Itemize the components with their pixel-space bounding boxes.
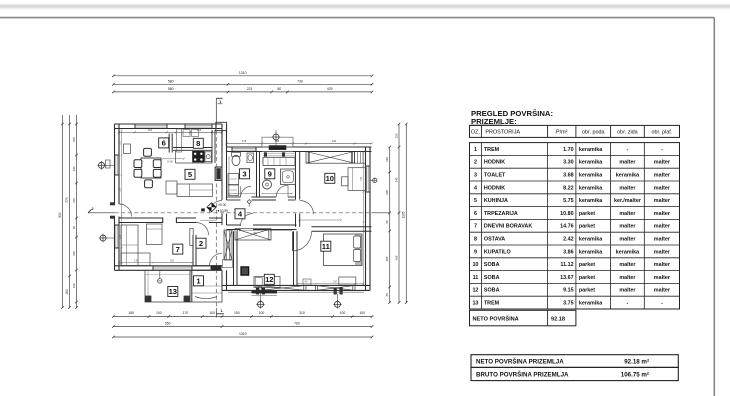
svg-text:9.15: 9.15 <box>563 288 574 294</box>
svg-text:8.22: 8.22 <box>563 185 574 191</box>
svg-text:-: - <box>661 147 663 153</box>
svg-text:10.80: 10.80 <box>560 211 574 217</box>
svg-text:malter: malter <box>654 185 671 191</box>
svg-text:9: 9 <box>474 249 477 255</box>
svg-text:221: 221 <box>247 87 253 91</box>
svg-text:SOBA: SOBA <box>484 275 500 281</box>
svg-text:-: - <box>627 301 629 307</box>
svg-text:13: 13 <box>472 301 478 307</box>
svg-text:140: 140 <box>72 166 76 171</box>
svg-text:5.75: 5.75 <box>563 198 574 204</box>
svg-text:7: 7 <box>176 245 180 254</box>
svg-text:parket: parket <box>579 275 595 281</box>
svg-text:1310: 1310 <box>239 71 247 75</box>
svg-text:2: 2 <box>91 207 93 211</box>
svg-text:3.68: 3.68 <box>563 173 574 179</box>
svg-text:keramika: keramika <box>579 147 603 153</box>
svg-text:92.18: 92.18 <box>551 316 565 322</box>
svg-text:malter: malter <box>619 211 636 217</box>
svg-text:12: 12 <box>472 288 478 294</box>
svg-text:770: 770 <box>65 197 69 203</box>
svg-text:760: 760 <box>294 321 300 325</box>
svg-text:HODNIK: HODNIK <box>484 160 505 166</box>
svg-text:keramika: keramika <box>579 249 603 255</box>
svg-text:malter: malter <box>619 160 636 166</box>
svg-text:200: 200 <box>170 259 175 262</box>
svg-text:keramika: keramika <box>579 185 603 191</box>
svg-text:parket: parket <box>579 288 595 294</box>
svg-text:8: 8 <box>196 139 200 148</box>
svg-text:165: 165 <box>72 251 76 256</box>
svg-text:malter: malter <box>654 275 671 281</box>
svg-text:TREM: TREM <box>484 147 500 153</box>
svg-text:175: 175 <box>72 198 76 203</box>
svg-text:parket: parket <box>579 211 595 217</box>
svg-text:12: 12 <box>265 275 273 284</box>
svg-text:SOBA: SOBA <box>484 288 500 294</box>
svg-text:3.75: 3.75 <box>563 301 574 307</box>
svg-text:100: 100 <box>209 311 215 315</box>
svg-text:310: 310 <box>333 281 338 284</box>
svg-text:parket: parket <box>579 224 595 230</box>
svg-text:obr. poda: obr. poda <box>582 129 606 135</box>
svg-text:11: 11 <box>473 275 479 281</box>
svg-text:2.42: 2.42 <box>563 237 574 243</box>
svg-text:obr. zida: obr. zida <box>617 129 639 135</box>
svg-text:170: 170 <box>183 311 189 315</box>
svg-text:10: 10 <box>472 262 478 268</box>
svg-text:OSTAVA: OSTAVA <box>484 237 505 243</box>
svg-text:keramika: keramika <box>616 173 640 179</box>
svg-text:keramika: keramika <box>579 237 603 243</box>
svg-text:92.18 m²: 92.18 m² <box>624 358 649 365</box>
svg-text:468: 468 <box>394 255 398 260</box>
svg-text:parket: parket <box>579 262 595 268</box>
svg-text:3: 3 <box>242 170 246 179</box>
svg-text:keramika: keramika <box>616 249 640 255</box>
svg-text:1: 1 <box>219 100 221 104</box>
svg-text:14.76: 14.76 <box>560 224 574 230</box>
svg-text:malter: malter <box>654 237 671 243</box>
svg-text:11: 11 <box>322 242 331 251</box>
svg-text:keramika: keramika <box>579 301 603 307</box>
svg-text:malter: malter <box>619 224 636 230</box>
svg-text:3.86: 3.86 <box>563 249 574 255</box>
svg-text:1.70: 1.70 <box>563 147 574 153</box>
svg-text:malter: malter <box>619 237 636 243</box>
svg-text:KUPATILO: KUPATILO <box>484 249 511 255</box>
svg-text:malter: malter <box>654 288 671 294</box>
svg-text:100: 100 <box>156 311 162 315</box>
svg-text:keramika: keramika <box>579 198 603 204</box>
svg-text:429: 429 <box>327 87 333 91</box>
svg-text:HODNIK: HODNIK <box>484 185 505 191</box>
svg-text:▼03.99: ▼03.99 <box>217 209 228 213</box>
svg-text:OZ.: OZ. <box>471 129 481 135</box>
svg-text:285: 285 <box>385 256 389 261</box>
svg-text:malter: malter <box>619 185 636 191</box>
svg-text:9: 9 <box>268 170 272 179</box>
svg-text:11.12: 11.12 <box>560 262 573 268</box>
svg-text:malter: malter <box>654 211 671 217</box>
svg-text:-: - <box>627 147 629 153</box>
svg-text:155: 155 <box>72 137 76 142</box>
svg-text:keramika: keramika <box>579 173 603 179</box>
svg-text:obr. plaf.: obr. plaf. <box>651 129 672 135</box>
svg-text:150: 150 <box>234 311 240 315</box>
svg-text:80: 80 <box>385 293 389 297</box>
svg-text:NETO POVRŠINA PRIZEMLJA: NETO POVRŠINA PRIZEMLJA <box>476 357 564 365</box>
svg-text:120: 120 <box>394 133 398 138</box>
svg-text:1310: 1310 <box>239 332 247 336</box>
svg-text:180: 180 <box>128 311 134 315</box>
svg-text:KUHINJA: KUHINJA <box>484 198 508 204</box>
svg-text:1: 1 <box>220 309 222 313</box>
svg-text:580: 580 <box>168 87 174 91</box>
svg-text:malter: malter <box>654 224 671 230</box>
svg-text:178: 178 <box>242 139 247 143</box>
svg-text:3.30: 3.30 <box>563 160 574 166</box>
svg-text:106.75 m²: 106.75 m² <box>621 372 649 379</box>
svg-text:1: 1 <box>474 147 477 153</box>
svg-text:malter: malter <box>654 160 671 166</box>
svg-text:3: 3 <box>474 173 477 179</box>
svg-text:malter: malter <box>619 262 636 268</box>
svg-text:160: 160 <box>72 283 76 288</box>
svg-text:240: 240 <box>332 139 337 143</box>
svg-text:100: 100 <box>340 311 346 315</box>
svg-text:DNEVNI BORAVAK: DNEVNI BORAVAK <box>484 224 532 230</box>
svg-text:2: 2 <box>199 239 203 248</box>
svg-text:80: 80 <box>278 87 282 91</box>
svg-text:PROSTORIJA: PROSTORIJA <box>485 129 520 135</box>
svg-text:TREM: TREM <box>484 301 500 307</box>
svg-text:TOALET: TOALET <box>484 173 506 179</box>
svg-text:7: 7 <box>474 224 477 230</box>
svg-text:100: 100 <box>259 311 265 315</box>
svg-text:ker./malter: ker./malter <box>614 198 642 204</box>
svg-text:13.67: 13.67 <box>560 275 574 281</box>
svg-text:95: 95 <box>385 220 389 224</box>
svg-text:13: 13 <box>169 287 177 296</box>
svg-text:1105: 1105 <box>402 211 406 218</box>
svg-text:310: 310 <box>299 311 305 315</box>
svg-text:730: 730 <box>297 79 303 83</box>
svg-text:BRUTO POVRŠINA PRIZEMLJA: BRUTO POVRŠINA PRIZEMLJA <box>476 371 569 379</box>
svg-text:malter: malter <box>619 275 636 281</box>
svg-text:205: 205 <box>385 190 389 195</box>
svg-text:PRIZEMLJE:: PRIZEMLJE: <box>471 117 517 126</box>
svg-text:10.80: 10.80 <box>167 161 174 164</box>
svg-text:930: 930 <box>58 212 62 218</box>
svg-text:±0.00: ±0.00 <box>218 203 226 207</box>
svg-text:malter: malter <box>654 249 671 255</box>
svg-text:100: 100 <box>359 311 365 315</box>
svg-text:340: 340 <box>394 177 398 182</box>
svg-text:malter: malter <box>654 173 671 179</box>
svg-text:malter: malter <box>654 198 671 204</box>
svg-text:135: 135 <box>360 176 363 181</box>
svg-text:6: 6 <box>474 211 477 217</box>
svg-text:-: - <box>661 301 663 307</box>
svg-text:130: 130 <box>385 157 389 162</box>
svg-text:malter: malter <box>654 262 671 268</box>
svg-text:keramika: keramika <box>579 160 603 166</box>
svg-text:8: 8 <box>474 237 477 243</box>
svg-text:6: 6 <box>162 139 166 148</box>
svg-text:10: 10 <box>326 174 334 183</box>
svg-text:malter: malter <box>619 288 636 294</box>
svg-text:95: 95 <box>72 226 76 230</box>
svg-text:2: 2 <box>474 160 477 166</box>
svg-text:160: 160 <box>65 289 69 295</box>
svg-text:580: 580 <box>168 79 174 83</box>
svg-text:P/m²: P/m² <box>556 129 568 135</box>
svg-text:4: 4 <box>474 185 477 191</box>
svg-text:550: 550 <box>165 321 171 325</box>
svg-text:NETO POVRŠINA: NETO POVRŠINA <box>473 314 519 322</box>
svg-text:5: 5 <box>474 198 477 204</box>
svg-text:SOBA: SOBA <box>484 262 500 268</box>
svg-text:TRPEZARIJA: TRPEZARIJA <box>484 211 518 217</box>
